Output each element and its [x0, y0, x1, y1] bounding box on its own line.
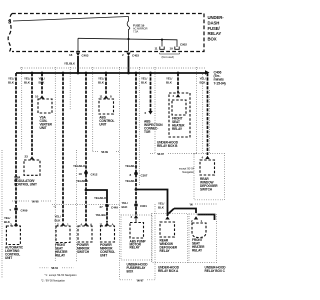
- svg-text:11: 11: [100, 95, 103, 99]
- ABS pump motor relay: [130, 223, 144, 239]
- svg-text:RELAY BOX C: RELAY BOX C: [205, 269, 226, 273]
- svg-text:Navigation: Navigation: [182, 170, 194, 174]
- VSA modulator/control unit box: [24, 160, 40, 175]
- pins 11 / 8 into ABS control unit: [104, 95, 108, 98]
- junction on W8: [135, 188, 138, 191]
- svg-text:YEL/BLK: YEL/BLK: [76, 179, 89, 183]
- svg-text:SWITCH: SWITCH: [200, 188, 213, 192]
- svg-text:YEL/BLK: YEL/BLK: [94, 196, 107, 200]
- junction fuse/horizontal: [127, 38, 129, 40]
- junction on W5: [85, 189, 88, 192]
- svg-text:C449: C449: [111, 206, 118, 210]
- svg-text:'96-'99: '96-'99: [101, 150, 108, 154]
- svg-text:11: 11: [155, 47, 158, 51]
- bus junction dots: [31, 72, 180, 75]
- svg-text:BLK: BLK: [39, 81, 46, 85]
- svg-text:YEL/BLK: YEL/BLK: [73, 164, 86, 168]
- dotted separators: [2, 67, 217, 280]
- wire W1 x=16: [15, 73, 17, 207]
- horizontal y=214.5 to box C: [198, 215, 215, 221]
- arrow into front seat heater relay (box C): [194, 216, 198, 219]
- power mirror control unit box: [101, 226, 115, 242]
- automatic lighting control unit box: [6, 226, 20, 245]
- wire W10 x=178: [177, 73, 179, 94]
- wire color label YEL/BLK (W7): [98, 77, 105, 85]
- svg-text:RELAY: RELAY: [208, 31, 222, 36]
- rear window defogger switch box: [200, 160, 215, 175]
- svg-text:C409: C409: [21, 209, 28, 213]
- front seat heater relay box (bottom left): [56, 226, 70, 243]
- under-hood fuse/relay box (outer dotted): [121, 215, 152, 260]
- svg-text:TOR: TOR: [144, 130, 151, 134]
- svg-text:'98-'04: '98-'04: [51, 266, 58, 270]
- connector C902 pin stubs (not used): [160, 47, 179, 50]
- wire W11 x=207.5: [207, 73, 209, 155]
- connector C412: [84, 171, 88, 175]
- svg-text:BLK: BLK: [98, 81, 105, 85]
- pin 3 arrow into automatic lighting control unit: [14, 223, 18, 226]
- svg-text:UNIT: UNIT: [5, 256, 12, 260]
- pins 4 / A into power mirror switch: [84, 223, 88, 226]
- svg-text:C403: C403: [132, 54, 139, 58]
- svg-text:UNIT: UNIT: [40, 126, 47, 130]
- svg-text:19: 19: [170, 47, 174, 51]
- wire inner horizontal node: [78, 38, 177, 47]
- svg-text:RELAY BOX A: RELAY BOX A: [158, 269, 179, 273]
- svg-text:C412: C412: [91, 173, 98, 177]
- connector C403 pin 2: [126, 53, 130, 57]
- ABS control unit box: [99, 99, 114, 114]
- svg-text:UNIT: UNIT: [100, 254, 107, 258]
- svg-text:BLK: BLK: [122, 205, 129, 209]
- svg-text:7-15-94): 7-15-94): [214, 81, 226, 85]
- junction stub pin 11: [161, 39, 163, 41]
- svg-text:BOX: BOX: [127, 270, 135, 274]
- arrow into rear window defogger relay: [165, 216, 169, 219]
- wire from S to fuse 19: [13, 17, 129, 22]
- pin 3 arrow into ABS pump motor relay: [134, 215, 138, 218]
- svg-text:C403: C403: [82, 54, 89, 58]
- connector C406 arrow: [205, 70, 210, 74]
- pin 10 arrow into VSA converter: [40, 95, 44, 98]
- fuse 19 (7.5A): [127, 17, 130, 32]
- pin 6 arrow ABS inspection connector: [148, 111, 152, 115]
- pins 2 / 1 into front seat heater relay: [61, 223, 65, 226]
- svg-text:*1 : except '99-'00 Navigation: *1 : except '99-'00 Navigation: [45, 273, 78, 277]
- wire color label YEL/BLK (W3): [39, 77, 46, 85]
- svg-text:C307: C307: [141, 174, 148, 178]
- VSA converter unit box: [38, 99, 52, 113]
- svg-text:SWITCH: SWITCH: [77, 250, 90, 254]
- svg-text:18: 18: [69, 53, 73, 57]
- label: ABS inspection connector caption: [144, 120, 163, 135]
- wire color label YEL/BLK (W2): [24, 77, 31, 85]
- wire color label YEL/BLK (W4 lower): [55, 215, 62, 223]
- svg-text:RELAY: RELAY: [55, 254, 66, 258]
- wire W8 x=136: [135, 73, 137, 203]
- svg-text:'96-'98: '96-'98: [32, 200, 39, 204]
- power mirror switch box: [78, 226, 92, 242]
- pin 4 arrow into rear window defogger switch: [205, 156, 209, 159]
- bus wire YEL/BLK horizontal: [16, 72, 205, 74]
- svg-text:23: 23: [25, 155, 29, 159]
- svg-text:BLK: BLK: [141, 81, 148, 85]
- svg-text:DASH: DASH: [208, 20, 220, 25]
- branch wire to rear window defogger relay: [136, 190, 168, 217]
- wire color label YEL/BLK (W1): [8, 77, 15, 85]
- diagonal link: [168, 209, 175, 215]
- svg-text:RELAY: RELAY: [172, 127, 183, 131]
- svg-text:UNIT: UNIT: [99, 123, 106, 127]
- svg-text:'96-'97: '96-'97: [157, 152, 164, 156]
- svg-text:RELAY: RELAY: [192, 249, 203, 253]
- svg-text:UNDER-: UNDER-: [208, 15, 225, 20]
- svg-text:27: 27: [100, 205, 104, 209]
- svg-text:except '00-'04: except '00-'04: [179, 167, 195, 171]
- svg-text:*2 : '99-'00 Navigation: *2 : '99-'00 Navigation: [41, 279, 66, 283]
- wire color label YEL/BLK (W9): [166, 77, 173, 85]
- svg-text:FUSE/: FUSE/: [208, 26, 221, 31]
- svg-text:RELAY BOX B: RELAY BOX B: [157, 144, 178, 148]
- wire color label YEL/BLK (W1 lower): [4, 216, 11, 224]
- svg-text:YEL/BLK: YEL/BLK: [64, 62, 75, 66]
- svg-text:RELAY: RELAY: [160, 249, 171, 253]
- under-hood relay box C (outer dotted): [189, 214, 217, 263]
- svg-text:'96-'97: '96-'97: [137, 278, 144, 282]
- wire W9 x=150.5: [150, 73, 152, 111]
- wire color label YEL/BLK (defogger relay feed): [158, 202, 165, 210]
- under-dash fuse/relay box outline: [8, 14, 204, 52]
- pins 11 / A into power mirror control unit: [105, 223, 109, 226]
- rear window defogger relay: [160, 222, 175, 237]
- wire feed x=78 to bus: [77, 56, 79, 73]
- wire color label YEL/BLK (W8): [141, 77, 148, 85]
- wire W7 x=106: [105, 73, 107, 95]
- front seat heater relay (box C component): [192, 223, 206, 238]
- wire W6 branch to x=107: [86, 190, 107, 203]
- wire W4 x=63: [62, 73, 64, 222]
- pin 2 arrow into front seat heater relay (box B): [176, 94, 180, 97]
- connector C403 pin 18: [76, 53, 80, 57]
- svg-text:BLK: BLK: [166, 81, 173, 85]
- under-hood relay box A (outer dotted): [152, 213, 188, 262]
- connector C409: [14, 207, 18, 211]
- year labels: [32, 150, 194, 282]
- front seat heater relay 96-97 outer dashed box: [169, 93, 190, 137]
- svg-text:C902: C902: [180, 42, 187, 46]
- wire W2 x=32: [31, 73, 33, 155]
- svg-text:RELAY: RELAY: [130, 246, 141, 250]
- bracket (Not used): [160, 53, 180, 54]
- svg-text:BLK: BLK: [24, 81, 31, 85]
- wire W3 x=42: [41, 73, 43, 95]
- wire drop at x=78: [77, 38, 79, 51]
- svg-text:BLK: BLK: [8, 81, 15, 85]
- wire fuse output down to C403 pin 2: [128, 31, 130, 52]
- rear window defogger switch dotted enclosure: [194, 154, 225, 200]
- footnotes: [41, 273, 77, 283]
- wire W5 x=86: [85, 73, 87, 223]
- svg-text:C901: C901: [140, 204, 147, 208]
- svg-text:10: 10: [35, 95, 39, 99]
- svg-text:BOX: BOX: [208, 37, 217, 42]
- svg-text:YEL/BLK: YEL/BLK: [125, 164, 138, 168]
- wire color label YEL/BLK (W8 lower): [122, 201, 129, 209]
- connector C449: [105, 204, 109, 208]
- connector C307: [134, 172, 138, 176]
- svg-text:YEL/BLK: YEL/BLK: [96, 213, 109, 217]
- svg-text:18: 18: [79, 172, 83, 176]
- wire feed x=128.5 to bus: [128, 56, 130, 73]
- svg-text:(Not used): (Not used): [162, 55, 175, 59]
- label: UNDER-DASH FUSE/RELAY BOX: [208, 15, 225, 42]
- svg-text:YEL/BLK: YEL/BLK: [125, 179, 138, 183]
- connector C901: [134, 203, 138, 207]
- horizontal y=208.5: [174, 209, 196, 214]
- note: except 00-04 Navigation: [179, 167, 195, 175]
- label: under-hood relay box B caption: [157, 141, 179, 149]
- svg-text:7.5A: 7.5A: [133, 30, 138, 34]
- svg-text:CONTROL UNIT: CONTROL UNIT: [14, 183, 37, 187]
- svg-text:BLK: BLK: [158, 206, 165, 210]
- pin 23 arrow into VSA modulator: [30, 156, 34, 159]
- wire color label YEL/BLK (W11): [200, 77, 207, 85]
